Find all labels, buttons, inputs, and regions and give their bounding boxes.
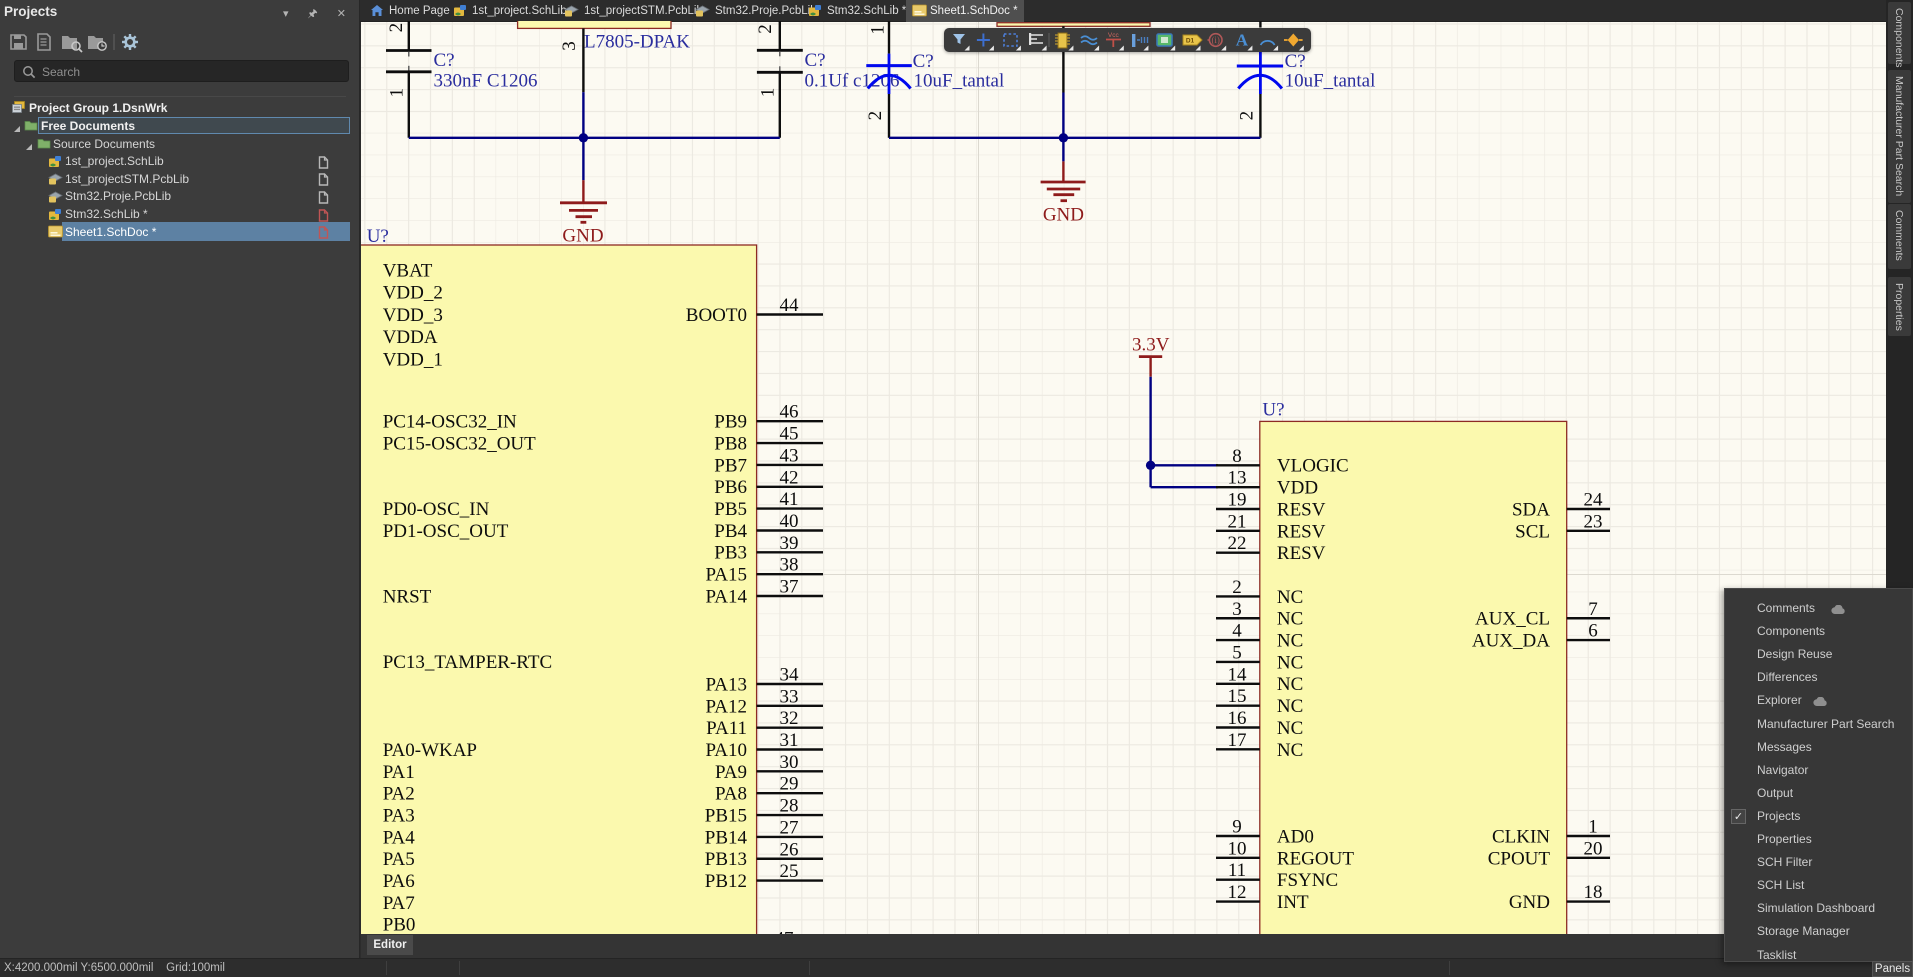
svg-text:22: 22 [1228,533,1247,554]
svg-text:C?: C? [805,50,826,71]
svg-text:NC: NC [1277,652,1303,673]
IC U? (STM32, clipped left/bottom) [352,245,757,940]
svg-text:3.3V: 3.3V [1132,334,1170,355]
svg-text:5: 5 [1232,642,1242,663]
svg-text:10uF_tantal: 10uF_tantal [1285,71,1376,92]
panels popup menu [1724,588,1913,962]
capacitor C? 0.1Uf c1206 [757,21,803,138]
document tab bar [360,0,1886,22]
svg-text:NC: NC [1277,718,1303,739]
wire net2 horizontal [889,137,1260,139]
svg-text:1: 1 [757,88,778,98]
junction net2 [1059,133,1068,142]
junction 3.3V net [1146,461,1155,470]
svg-text:31: 31 [780,730,799,751]
floating schematic toolbar [944,28,1311,52]
comment label L7805-DPAK [584,32,690,53]
svg-text:PA13: PA13 [705,674,747,695]
svg-text:0.1Uf c1206: 0.1Uf c1206 [805,70,900,91]
svg-text:10uF_tantal: 10uF_tantal [914,71,1005,92]
svg-text:42: 42 [780,467,799,488]
svg-text:U?: U? [367,226,389,247]
svg-text:23: 23 [1584,511,1603,532]
svg-text:L7805-DPAK: L7805-DPAK [584,32,690,53]
svg-text:26: 26 [780,839,799,860]
component box (clipped at top, right of L7805) [997,23,1150,27]
svg-text:VDD: VDD [1277,478,1318,499]
svg-text:RESV: RESV [1277,499,1326,520]
svg-text:VDD_1: VDD_1 [383,349,443,370]
net label GND [562,226,603,247]
svg-text:15: 15 [1228,686,1247,707]
svg-text:VDDA: VDDA [383,327,438,348]
svg-text:10: 10 [1228,838,1247,859]
svg-text:PC14-OSC32_IN: PC14-OSC32_IN [383,412,517,433]
designator U? [1262,400,1284,421]
svg-text:GND: GND [1509,892,1550,913]
pin number 47 (clipped) [775,929,794,950]
svg-text:PA8: PA8 [715,784,747,805]
value label 0.1Uf c1206 [805,70,900,91]
svg-text:21: 21 [1228,511,1247,532]
svg-text:17: 17 [1228,730,1247,751]
svg-text:28: 28 [780,796,799,817]
ground GND (right) [1041,161,1086,200]
svg-text:12: 12 [1228,882,1247,903]
svg-text:8: 8 [1232,446,1242,467]
svg-text:38: 38 [780,555,799,576]
svg-text:7: 7 [1588,599,1598,620]
svg-text:34: 34 [780,665,800,686]
U? right pin names [1472,499,1550,913]
polarized capacitor C? 10uF_tantal (second) [1237,21,1283,138]
svg-text:VDD_2: VDD_2 [383,282,443,303]
svg-text:PA0-WKAP: PA0-WKAP [383,740,477,761]
svg-text:NC: NC [1277,740,1303,761]
svg-text:27: 27 [780,817,799,838]
svg-text:44: 44 [780,295,800,316]
svg-text:RESV: RESV [1277,543,1326,564]
svg-text:A: A [1235,30,1248,49]
svg-text:20: 20 [1584,838,1603,859]
svg-text:SDA: SDA [1512,499,1550,520]
svg-text:GND: GND [1043,205,1084,226]
svg-text:PB8: PB8 [714,434,747,455]
svg-text:C?: C? [913,51,934,72]
svg-text:1: 1 [1588,817,1598,838]
wire 3.3V vertical [1149,377,1151,488]
svg-text:PB5: PB5 [714,499,747,520]
capacitor C? 330nF C1206 [386,21,432,138]
svg-text:PB0: PB0 [383,915,416,934]
svg-text:NC: NC [1277,587,1303,608]
svg-text:PA14: PA14 [705,586,747,607]
svg-text:VLOGIC: VLOGIC [1277,456,1349,477]
svg-text:PD0-OSC_IN: PD0-OSC_IN [383,499,490,520]
wire to pin 13 [1151,486,1218,488]
svg-text:330nF C1206: 330nF C1206 [434,70,538,91]
IC U? (right, clipped at bottom) [1260,421,1567,939]
wire net2 vertical [1062,93,1064,162]
bottom editor bar [361,934,1886,958]
svg-text:AUX_CL: AUX_CL [1475,609,1550,630]
wire net1 vertical from pin 3 [582,92,584,180]
svg-text:PA7: PA7 [383,893,415,914]
svg-text:NC: NC [1277,609,1303,630]
pin number 2 of C? [755,24,776,34]
svg-text:SCL: SCL [1515,521,1550,542]
svg-text:PB14: PB14 [705,827,748,848]
svg-text:NRST: NRST [383,586,432,607]
left Projects panel [0,0,360,958]
designator C? [1285,51,1306,72]
pin 3 of L7805 [559,28,584,92]
status bar [0,958,1913,977]
svg-text:2: 2 [386,23,407,32]
wire to pin 8 [1151,464,1218,466]
svg-text:AD0: AD0 [1277,826,1314,847]
svg-text:PA4: PA4 [383,827,416,848]
svg-text:18: 18 [1584,882,1603,903]
net label GND [1043,205,1084,226]
svg-text:6: 6 [1588,621,1598,642]
pin number 2 of C? [1236,111,1257,121]
svg-text:9: 9 [1232,817,1242,838]
svg-text:2: 2 [1236,111,1257,121]
svg-text:NC: NC [1277,631,1303,652]
designator C? [913,51,934,72]
designator C? [805,50,826,71]
svg-text:30: 30 [780,752,799,773]
svg-text:PA5: PA5 [383,849,415,870]
value label 330nF C1206 [434,70,538,91]
pin number 1 of C? [387,88,408,98]
svg-text:19: 19 [1228,490,1247,511]
designator C? [434,50,455,71]
svg-text:29: 29 [780,774,799,795]
polarized capacitor C? 10uF_tantal [866,21,912,138]
value label 10uF_tantal [914,71,1005,92]
svg-text:2: 2 [865,111,886,121]
U? left pin names [383,260,552,935]
svg-text:46: 46 [780,402,799,423]
U? right pin numbers [780,295,800,882]
pin number 2 of C? [386,23,407,32]
pin number 1 of C? [867,25,888,35]
svg-text:FSYNC: FSYNC [1277,870,1338,891]
right panel tab strip [1886,0,1913,977]
svg-text:REGOUT: REGOUT [1277,848,1354,869]
svg-text:PB6: PB6 [714,477,747,498]
svg-text:PC15-OSC32_OUT: PC15-OSC32_OUT [383,434,536,455]
svg-text:45: 45 [780,424,799,445]
ground GND (left) [560,180,607,222]
svg-text:C?: C? [434,50,455,71]
svg-text:33: 33 [780,686,799,707]
svg-text:CPOUT: CPOUT [1488,848,1551,869]
svg-text:PD1-OSC_OUT: PD1-OSC_OUT [383,521,509,542]
junction net1 [579,133,588,142]
svg-text:CLKIN: CLKIN [1492,826,1550,847]
pin of top-right component [1062,26,1064,92]
svg-text:(i): (i) [1211,35,1220,45]
svg-text:NC: NC [1277,696,1303,717]
svg-text:1: 1 [867,25,888,35]
svg-text:PB15: PB15 [705,805,747,826]
U? left pin lines [1216,465,1260,901]
svg-text:24: 24 [1584,490,1604,511]
svg-text:AUX_DA: AUX_DA [1472,631,1550,652]
svg-text:PA12: PA12 [705,696,747,717]
svg-text:PA10: PA10 [705,740,747,761]
svg-text:3: 3 [1232,599,1242,620]
svg-text:C?: C? [1285,51,1306,72]
svg-text:U?: U? [1262,400,1284,421]
svg-text:PB3: PB3 [714,543,747,564]
svg-text:2: 2 [755,24,776,34]
svg-text:VBAT: VBAT [383,260,433,281]
svg-text:16: 16 [1228,708,1247,729]
U? left pin numbers [1228,446,1248,903]
svg-text:3: 3 [559,41,580,51]
svg-text:INT: INT [1277,892,1309,913]
svg-text:VDD_3: VDD_3 [383,305,443,326]
svg-text:PA9: PA9 [715,762,747,783]
schematic sheet [361,22,1886,935]
svg-text:PA2: PA2 [383,784,415,805]
svg-text:11: 11 [1228,860,1246,881]
value label 10uF_tantal [1285,71,1376,92]
U? right pin lines [1567,509,1610,902]
svg-text:D1: D1 [1185,37,1194,44]
U? left pin names [1277,456,1354,913]
svg-text:PA15: PA15 [705,565,747,586]
svg-text:Vcc: Vcc [1107,32,1119,39]
regulator U? L7805-DPAK (box clipped at top) [518,8,671,28]
svg-text:PA1: PA1 [383,762,415,783]
svg-text:NC: NC [1277,674,1303,695]
svg-text:14: 14 [1228,664,1248,685]
svg-text:39: 39 [780,533,799,554]
svg-text:40: 40 [780,511,799,532]
svg-text:PA11: PA11 [706,718,747,739]
svg-text:37: 37 [780,577,799,598]
svg-text:PA6: PA6 [383,871,415,892]
svg-text:PB7: PB7 [714,455,747,476]
svg-text:2: 2 [1232,577,1242,598]
wire net1 horizontal [409,137,780,139]
svg-text:25: 25 [780,861,799,882]
svg-text:PB13: PB13 [705,849,747,870]
svg-text:PB9: PB9 [714,412,747,433]
svg-text:41: 41 [780,489,799,510]
svg-text:1: 1 [387,88,408,98]
Panels button [1872,961,1913,977]
designator U? [367,226,389,247]
svg-text:BOOT0: BOOT0 [686,305,747,326]
svg-text:PB4: PB4 [714,521,747,542]
svg-text:PC13_TAMPER-RTC: PC13_TAMPER-RTC [383,652,552,673]
svg-text:43: 43 [780,445,799,466]
svg-text:PB12: PB12 [705,871,747,892]
U? right pin names [686,305,748,892]
svg-text:13: 13 [1228,468,1247,489]
U? right pin numbers [1584,490,1604,904]
power port 3.3V [1132,334,1170,376]
svg-text:32: 32 [780,708,799,729]
pin number 2 of C? [865,111,886,121]
pin number 1 of C? [757,88,778,98]
svg-text:PA3: PA3 [383,805,415,826]
svg-text:GND: GND [562,226,603,247]
svg-text:RESV: RESV [1277,521,1326,542]
U? right pin lines [757,315,823,881]
svg-text:4: 4 [1232,621,1242,642]
